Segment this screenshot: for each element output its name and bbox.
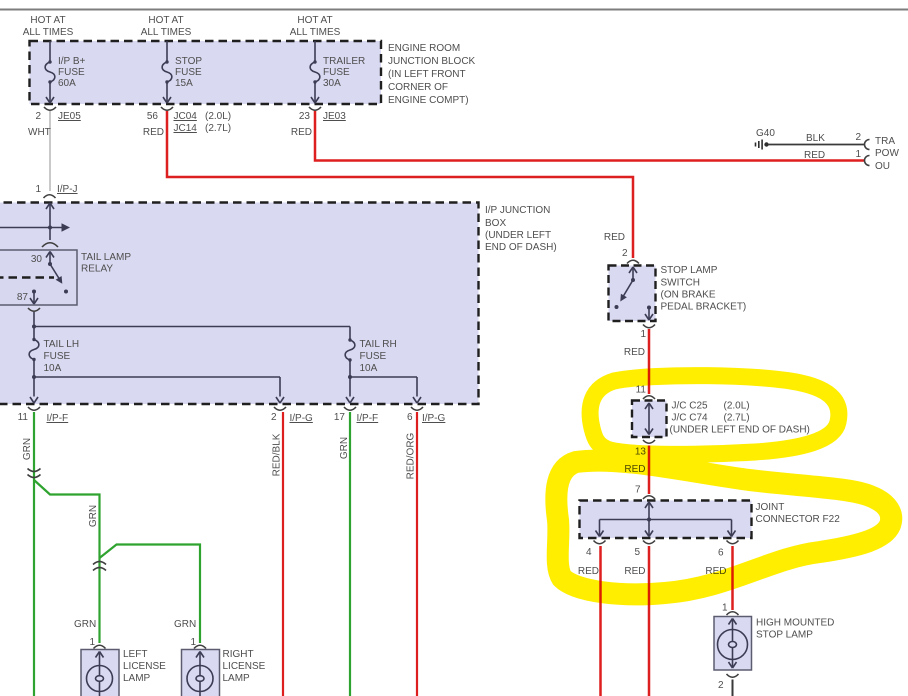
left license lamp <box>74 619 119 696</box>
label J/C C25 <box>670 401 810 436</box>
connector 17 I/P-F <box>334 407 378 424</box>
joint connector F22 <box>580 485 752 559</box>
wire GRN from pin 17 <box>349 412 351 696</box>
connector cup pin 23 JE03 <box>299 107 346 122</box>
relay pin 30 <box>46 252 54 267</box>
wire RED from stop fuse to stop lamp switch <box>143 111 633 258</box>
wire RED pin6 to high mounted stop lamp <box>705 546 732 610</box>
wire green branch to left license lamp <box>34 480 100 643</box>
junction connector J/C C25/C74 <box>632 385 667 458</box>
wire WHT from fuse 1 <box>28 111 51 191</box>
connector cup pin 2 JE05 <box>35 107 81 122</box>
fuse TAIL RH 10A <box>345 327 355 404</box>
wire green branch to right license lamp <box>100 545 201 644</box>
high mounted stop lamp <box>714 603 752 692</box>
connector cup pin 56 JC04/JC14 <box>147 107 231 134</box>
wire BLK below high mounted stop lamp <box>732 680 734 696</box>
fuse TRAILER 30A <box>310 41 320 103</box>
inline connector on green wire <box>28 469 41 478</box>
branch to pin 6 exit <box>350 377 421 403</box>
stop lamp switch <box>604 232 656 340</box>
label GRN vertical 1 <box>22 438 33 460</box>
label joint connector F22 <box>756 502 841 525</box>
wire RED J/C to joint connector <box>624 446 649 495</box>
label high mounted stop lamp <box>756 618 834 641</box>
relay output socket arc <box>28 308 40 311</box>
connector 6 I/P-G <box>407 407 446 424</box>
label tail lh fuse <box>44 339 80 374</box>
label I/P junction box <box>485 205 557 253</box>
label RED/ORG vertical <box>406 432 417 479</box>
tail lamp relay box <box>0 250 77 305</box>
label GRN vertical 2 <box>88 505 99 527</box>
wire relay 87 down to fuses <box>32 312 350 340</box>
wire into box at pin 1 <box>46 203 54 240</box>
label right license lamp <box>223 649 266 684</box>
label tail lamp relay <box>81 252 131 275</box>
wire RED/ORG from pin 6 <box>416 412 418 696</box>
label engine room junction block <box>388 43 476 106</box>
wire RED switch to J/C <box>624 329 649 394</box>
fuse TAIL LH 10A <box>29 338 39 403</box>
wire RED/BLK from pin 2 <box>282 412 284 696</box>
relay coil dashed line <box>0 276 54 278</box>
relay socket arc <box>42 243 58 247</box>
right license lamp <box>174 619 220 696</box>
fuse I/P B+ 60A <box>45 41 55 103</box>
wire GRN main left <box>33 412 35 696</box>
trailer power outlet pin arcs <box>804 140 870 166</box>
top rule <box>0 9 908 11</box>
engine room junction block box <box>30 41 382 104</box>
relay switch contact <box>50 264 68 294</box>
inline connector on branch wire <box>93 562 106 571</box>
label left license lamp <box>123 649 166 684</box>
branch to pin 2 exit <box>34 377 284 403</box>
wire RED pin5 down <box>624 546 649 696</box>
label GRN vertical 3 <box>339 437 350 459</box>
label tail rh fuse <box>360 339 397 374</box>
label stop lamp switch <box>661 265 747 313</box>
label RED/BLK vertical <box>272 433 283 476</box>
label fuse 1 <box>58 56 85 89</box>
wire BLK ground to outlet pin 2 <box>768 132 865 145</box>
relay pin 87 <box>30 290 38 305</box>
yellow highlighter ring around J/C C25 <box>590 376 839 455</box>
connector 11 I/P-F <box>18 407 69 424</box>
connector 1 I/P-J <box>35 184 77 198</box>
label trailer power outlet (clipped at right edge) <box>875 136 899 172</box>
wire RED pin4 down <box>578 546 601 696</box>
label HOT AT ALL TIMES (x3) <box>23 15 341 38</box>
yellow highlighter ring around joint connector F22 <box>556 461 891 595</box>
fuse STOP 15A <box>162 41 172 103</box>
ground G40 <box>756 128 776 150</box>
connector 2 I/P-G <box>271 407 313 424</box>
wire RED from trailer fuse to trailer power outlet <box>291 111 865 161</box>
label fuse 2 <box>175 56 202 89</box>
I/P junction box <box>0 203 479 405</box>
label fuse 3 <box>323 56 365 89</box>
branch arrow to the right <box>0 223 70 231</box>
